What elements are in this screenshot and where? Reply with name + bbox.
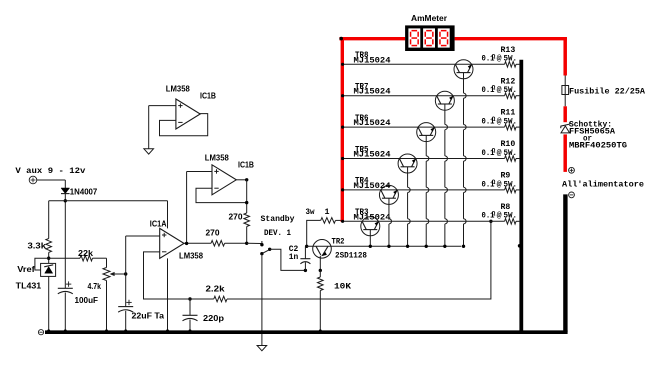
svg-text:R12: R12 bbox=[501, 77, 516, 86]
digit 8 bbox=[412, 30, 418, 32]
wire base lead bbox=[425, 135, 427, 156]
node junction TR2 base bbox=[305, 245, 308, 248]
node junction output bbox=[185, 242, 188, 245]
svg-text:FFSH5065A: FFSH5065A bbox=[569, 126, 616, 136]
wire bbox=[225, 242, 247, 244]
svg-text:All'alimentatore: All'alimentatore bbox=[562, 179, 644, 189]
wire collector-emitter row bbox=[344, 220, 505, 222]
diode D2 Schottky bbox=[561, 122, 570, 128]
resistor R10 0.1ohm 5W bbox=[505, 156, 516, 162]
node junction 220p bbox=[188, 297, 191, 300]
capacitor 100uF bbox=[58, 287, 73, 289]
fuse F1 Fusibile bbox=[562, 86, 569, 95]
svg-text:MJ15024: MJ15024 bbox=[354, 150, 391, 160]
wire bbox=[270, 249, 306, 270]
wire bbox=[183, 298, 214, 300]
node junction ground bus bbox=[166, 329, 169, 332]
svg-text:MJ15024: MJ15024 bbox=[354, 212, 391, 222]
wire base lead bbox=[369, 230, 371, 247]
wire bbox=[186, 172, 188, 244]
svg-text:@: @ bbox=[497, 211, 502, 221]
svg-text:R9: R9 bbox=[501, 172, 511, 181]
wire plus input bbox=[126, 235, 160, 237]
wire red right vertical seg1 bbox=[563, 37, 567, 76]
digit 8 bbox=[441, 30, 447, 32]
wire collector-emitter row bbox=[344, 189, 505, 191]
node junction on bus bbox=[518, 244, 522, 248]
node junction base bus bbox=[425, 245, 428, 248]
node junction R8 bbox=[489, 220, 492, 223]
wire red input left vertical bbox=[341, 37, 344, 222]
wire bbox=[125, 311, 127, 331]
svg-text:IC1B: IC1B bbox=[200, 91, 216, 100]
svg-text:DEV. 1: DEV. 1 bbox=[264, 228, 291, 238]
svg-text:Ω: Ω bbox=[492, 210, 496, 217]
wire bbox=[149, 105, 176, 107]
wire feedback bbox=[196, 188, 247, 202]
wire bbox=[49, 200, 168, 202]
svg-text:5W.: 5W. bbox=[504, 149, 518, 158]
wire ground bus bottom bbox=[45, 330, 568, 334]
resistor 22k bbox=[80, 255, 93, 261]
node junction on red bus bbox=[341, 188, 344, 191]
wire red top right horizontal bbox=[455, 37, 567, 40]
wire output bbox=[184, 242, 211, 244]
wire emitter bbox=[319, 256, 321, 271]
node junction on red bus bbox=[341, 94, 344, 97]
wire bbox=[93, 257, 107, 259]
svg-text:220p: 220p bbox=[203, 314, 224, 323]
node junction base bus bbox=[406, 245, 409, 248]
svg-text:MJ15024: MJ15024 bbox=[354, 87, 391, 97]
transistor Q6 TR6 MJ15024 bbox=[417, 123, 436, 142]
svg-text:3w: 3w bbox=[306, 207, 315, 217]
wire bbox=[189, 320, 191, 331]
ground bbox=[144, 149, 154, 154]
node junction on red bus bbox=[341, 220, 344, 223]
wire base lead bbox=[444, 104, 446, 125]
wire bbox=[37, 179, 66, 181]
svg-text:1: 1 bbox=[325, 207, 330, 217]
node junction red corner bbox=[339, 37, 343, 41]
node junction bbox=[245, 201, 248, 204]
op-amp U1c LM358 IC1A bbox=[160, 228, 184, 258]
svg-text:MJ15024: MJ15024 bbox=[354, 55, 391, 65]
svg-text:5W.: 5W. bbox=[504, 180, 518, 189]
svg-text:Ω: Ω bbox=[492, 85, 496, 92]
ground bbox=[257, 346, 267, 351]
svg-text:@: @ bbox=[497, 54, 502, 64]
resistor 10K bbox=[319, 270, 321, 277]
resistor R12 0.1ohm 5W bbox=[505, 93, 516, 99]
svg-text:@: @ bbox=[497, 85, 502, 95]
transistor Q8 TR8 MJ15024 bbox=[454, 60, 473, 79]
wire minus input bbox=[144, 252, 183, 299]
transistor Q5 TR5 MJ15024 bbox=[398, 154, 417, 173]
node junction ground bus bbox=[105, 329, 108, 332]
resistor 270 horizontal bbox=[211, 241, 225, 247]
wire collector-emitter row bbox=[344, 126, 505, 128]
wire vminus pin bbox=[167, 258, 169, 330]
node junction ground bus bbox=[189, 329, 192, 332]
svg-text:R8: R8 bbox=[501, 203, 511, 212]
wire bbox=[187, 171, 212, 173]
wire collector-emitter row bbox=[344, 63, 505, 65]
wire vplus pin bbox=[167, 201, 169, 229]
svg-text:@: @ bbox=[497, 117, 502, 127]
resistor 2.2k bbox=[214, 296, 227, 302]
svg-text:5W.: 5W. bbox=[504, 86, 518, 95]
node junction base bus bbox=[387, 245, 390, 248]
svg-text:@: @ bbox=[497, 148, 502, 158]
svg-text:V aux 9 - 12v: V aux 9 - 12v bbox=[15, 166, 85, 176]
svg-text:270: 270 bbox=[206, 228, 221, 237]
wire bbox=[246, 227, 248, 244]
transistor Q4 TR4 MJ15024 bbox=[379, 185, 398, 204]
wire 22k feed bbox=[49, 257, 80, 259]
node junction bbox=[245, 242, 248, 245]
node junction bbox=[245, 178, 248, 181]
node junction ground bus bbox=[319, 329, 322, 332]
svg-text:5W.: 5W. bbox=[504, 55, 518, 64]
svg-text:MBRF40250TG: MBRF40250TG bbox=[569, 140, 627, 150]
transistor Q3 TR3 MJ15024 bbox=[361, 217, 380, 236]
wire TL431 ref bbox=[35, 258, 49, 270]
svg-text:Ω: Ω bbox=[492, 53, 496, 60]
capacitor 22uF Ta bbox=[118, 306, 133, 308]
wire base lead bbox=[388, 198, 390, 219]
node wiper junction bbox=[124, 272, 127, 275]
node junction bbox=[319, 269, 322, 272]
svg-text:LM358: LM358 bbox=[205, 153, 230, 162]
terminal output plus bbox=[569, 167, 575, 173]
svg-text:Fusibile 22/25A: Fusibile 22/25A bbox=[569, 86, 646, 96]
wire to ground bbox=[261, 254, 263, 346]
svg-text:5W.: 5W. bbox=[504, 118, 518, 127]
resistor 3.3k bbox=[46, 239, 52, 253]
svg-text:22uF Ta: 22uF Ta bbox=[132, 311, 165, 320]
svg-text:1n: 1n bbox=[289, 252, 299, 262]
op-amp U1a LM358 IC1B top bbox=[176, 99, 200, 129]
svg-text:R10: R10 bbox=[501, 140, 516, 149]
svg-text:LM358: LM358 bbox=[179, 251, 204, 260]
wire base bus bbox=[307, 245, 462, 247]
svg-text:IC1B: IC1B bbox=[238, 160, 254, 169]
wire bbox=[247, 242, 262, 244]
svg-text:@: @ bbox=[497, 179, 502, 189]
wire bbox=[106, 258, 108, 267]
svg-text:22k: 22k bbox=[78, 249, 94, 258]
svg-text:R13: R13 bbox=[501, 46, 516, 55]
resistor R13 0.1ohm 5W bbox=[505, 62, 516, 68]
wire bbox=[64, 194, 66, 289]
svg-text:2.2k: 2.2k bbox=[206, 284, 226, 293]
wire bbox=[564, 95, 566, 107]
svg-text:R11: R11 bbox=[501, 109, 516, 118]
wire output bbox=[236, 179, 246, 181]
svg-text:5W.: 5W. bbox=[504, 212, 518, 221]
svg-text:100uF: 100uF bbox=[75, 296, 99, 305]
svg-text:Ω: Ω bbox=[492, 148, 496, 155]
wire bbox=[246, 180, 248, 213]
resistor R9 0.1ohm 5W bbox=[505, 187, 516, 193]
wire bbox=[336, 219, 343, 221]
wire bbox=[564, 76, 566, 86]
svg-text:Ω: Ω bbox=[492, 116, 496, 123]
capacitor 220p bbox=[189, 299, 191, 315]
svg-text:1N4007: 1N4007 bbox=[70, 187, 98, 196]
node junction base bus bbox=[369, 245, 372, 248]
wire feedback to output bbox=[227, 221, 491, 299]
svg-text:10K: 10K bbox=[334, 281, 352, 291]
regulator U2 TL431 Vref bbox=[41, 263, 56, 276]
resistor R11 0.1ohm 5W bbox=[505, 124, 516, 130]
svg-text:TL431: TL431 bbox=[16, 281, 42, 290]
wire bbox=[106, 281, 108, 331]
op-amp U1b LM358 IC1B mid bbox=[212, 165, 236, 195]
wire base lead bbox=[407, 167, 409, 188]
node junction ground bus bbox=[124, 329, 127, 332]
wire bbox=[48, 276, 50, 330]
svg-text:TR2: TR2 bbox=[332, 237, 345, 247]
wire base lead bbox=[463, 73, 465, 94]
node A junction bbox=[64, 199, 67, 202]
terminal Vaux plus bbox=[29, 176, 37, 184]
svg-text:LM358: LM358 bbox=[166, 85, 191, 94]
wire red right vertical seg2 bbox=[563, 106, 567, 122]
transistor Q7 TR7 MJ15024 bbox=[435, 91, 454, 110]
svg-text:Standby: Standby bbox=[261, 214, 295, 224]
svg-text:Vref: Vref bbox=[17, 265, 35, 274]
wire red right vertical seg3 bbox=[563, 134, 567, 172]
wire bbox=[319, 291, 321, 331]
wire collector-emitter row bbox=[344, 95, 505, 97]
svg-text:IC1A: IC1A bbox=[150, 220, 167, 229]
svg-text:4.7k: 4.7k bbox=[88, 282, 102, 291]
wire bbox=[48, 201, 50, 239]
wire negative lead thick vertical bbox=[563, 194, 567, 332]
diode D1 1N4007 bbox=[61, 188, 70, 194]
wire collector-emitter row bbox=[344, 158, 505, 160]
terminal output minus bbox=[569, 192, 575, 198]
svg-text:3.3k: 3.3k bbox=[28, 241, 47, 250]
node B junction bbox=[47, 257, 50, 260]
wire bbox=[148, 106, 150, 149]
svg-text:270: 270 bbox=[229, 213, 244, 222]
wire bbox=[125, 236, 127, 307]
trimmer 4.7k bbox=[103, 268, 110, 281]
wire feedback bbox=[160, 114, 208, 136]
wire output bus thick vertical bbox=[519, 60, 523, 332]
terminal ground minus left bbox=[38, 330, 43, 335]
node junction on red bus bbox=[341, 126, 344, 129]
digit 8 bbox=[426, 30, 432, 32]
resistor R8 0.1ohm 5W bbox=[505, 219, 516, 225]
node junction bbox=[304, 269, 307, 272]
transistor Q2 TR2 2SD1128 bbox=[313, 240, 332, 259]
wire bbox=[64, 180, 66, 188]
wire bbox=[48, 252, 50, 263]
node junction on red bus bbox=[341, 63, 344, 66]
node junction ground bus bbox=[47, 329, 50, 332]
node junction ground bus bbox=[64, 329, 67, 332]
svg-text:Ω: Ω bbox=[492, 179, 496, 186]
svg-text:MJ15024: MJ15024 bbox=[354, 181, 391, 191]
resistor 270 vertical bbox=[244, 213, 250, 227]
svg-text:MJ15024: MJ15024 bbox=[354, 118, 391, 128]
node junction base bus bbox=[462, 245, 465, 248]
node junction base bus bbox=[443, 245, 446, 248]
node junction on red bus bbox=[341, 157, 344, 160]
svg-text:AmMeter: AmMeter bbox=[411, 14, 447, 23]
svg-text:2SD1128: 2SD1128 bbox=[335, 251, 367, 261]
wire red input top horizontal bbox=[339, 37, 405, 40]
wire bbox=[64, 293, 66, 331]
